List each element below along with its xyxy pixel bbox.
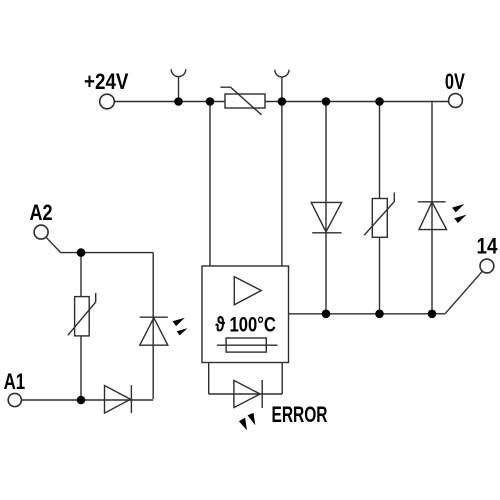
svg-text:A1: A1 — [4, 369, 26, 394]
svg-text:A2: A2 — [30, 200, 53, 225]
svg-text:14: 14 — [477, 234, 498, 259]
svg-text:ERROR: ERROR — [272, 402, 328, 427]
svg-text:ϑ 100°C: ϑ 100°C — [215, 312, 275, 336]
svg-text:0V: 0V — [445, 69, 465, 94]
svg-text:+24V: +24V — [84, 69, 129, 94]
